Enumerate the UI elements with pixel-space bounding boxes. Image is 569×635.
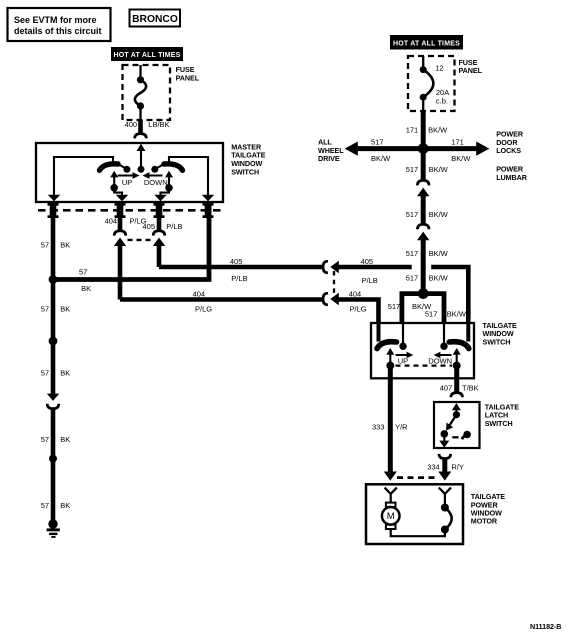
ground wire 57 BK left column upper (51, 218, 56, 280)
wire 407 T/BK from switch (454, 366, 459, 393)
svg-text:333: 333 (372, 423, 385, 432)
note box "See EVTM for more details of this circuit" (8, 8, 111, 41)
wire label 171 BK/W (upper) (406, 126, 448, 135)
svg-text:P/LG: P/LG (195, 305, 212, 314)
splice dot S5 (517 to switch) (418, 288, 429, 299)
svg-text:UP: UP (122, 178, 132, 187)
latch switch lower contact dot (441, 430, 449, 438)
svg-text:517: 517 (388, 302, 401, 311)
tailgate latch switch box (434, 402, 480, 448)
svg-text:M: M (387, 511, 395, 522)
ground wire 57 BK left column mid (51, 280, 56, 342)
wire 400 LB/BK from fuse panel (138, 120, 143, 133)
inline connector male arrow (404 horizontal) (330, 293, 339, 305)
inline connector male arrow (405 horizontal) (330, 261, 339, 273)
latch switch alternate contact (dot with tail) (462, 431, 471, 440)
svg-text:BK/W: BK/W (429, 249, 449, 258)
switch feed wire 517 left inside box (402, 323, 404, 343)
wire 333 male arrow at motor connector (384, 472, 397, 481)
tailgate switch left lower contact dot (386, 362, 394, 370)
svg-text:517: 517 (371, 138, 384, 147)
motor left terminal fork (385, 488, 397, 503)
inline connector male arrow (517 seg2) (417, 232, 429, 294)
svg-text:BK/W: BK/W (371, 154, 391, 163)
circuit breaker 20A c.b. (420, 56, 434, 111)
latch switch output arrow (down to box bottom) (439, 434, 449, 448)
fuse element (left fuse panel) (135, 65, 146, 120)
svg-text:SWITCH: SWITCH (483, 338, 511, 347)
inline connector female bell (405) (153, 231, 165, 236)
tailgate switch UP throw arrow (396, 352, 414, 359)
wire label 57 BK (5) (41, 501, 71, 510)
wire 404 P/LG horizontal right segment (336, 300, 379, 324)
ground branch wire 57 BK horizontal (53, 202, 209, 280)
svg-text:See EVTM for more: See EVTM for more (14, 15, 97, 25)
wire 171 BK/W arrow to power door locks (423, 142, 489, 156)
inline connector dashed link (horizontal pair) (333, 271, 335, 294)
svg-text:517: 517 (406, 165, 419, 174)
svg-text:BK/W: BK/W (429, 210, 449, 219)
master switch left contact arrow to arm (110, 171, 118, 188)
wire label 334 R/Y (427, 462, 464, 471)
motor right terminal fork (439, 488, 451, 504)
splice dot S4 (171/517 junction) (418, 143, 429, 154)
svg-text:334: 334 (427, 462, 440, 471)
svg-text:517: 517 (425, 310, 438, 319)
master switch right output wire (to 405) (161, 188, 170, 196)
wire 334 male arrow at motor connector (438, 472, 451, 481)
motor internal limit switch arc (445, 508, 452, 530)
svg-text:BK: BK (60, 240, 70, 249)
splice dot S2 (49, 337, 58, 346)
inline connector female bell (517 seg1) (417, 180, 429, 185)
wire label 57 BK (2) (41, 304, 71, 313)
tailgate switch left contact arrow to arm (386, 348, 394, 366)
wire 171 BK/W from breaker (421, 111, 426, 149)
wire label 517 BK/W (seg4) (406, 274, 449, 283)
svg-text:404: 404 (105, 217, 118, 226)
tailgate switch right lower contact dot (453, 362, 461, 370)
wire label 404 P/LG (upper) (105, 217, 147, 226)
svg-text:517: 517 (406, 249, 419, 258)
tailgate switch left contact dot (399, 343, 406, 350)
inline connector male arrow (405) (153, 238, 165, 268)
svg-text:BK: BK (60, 501, 70, 510)
master switch left wiper arm (100, 164, 119, 170)
master switch right lower contact dot (165, 184, 173, 192)
svg-text:R/Y: R/Y (451, 462, 464, 471)
svg-text:c.b.: c.b. (436, 96, 448, 105)
svg-text:BK: BK (60, 435, 70, 444)
wire label 517 BK/W (seg2) (406, 210, 449, 219)
master switch right feed rail (169, 157, 208, 195)
motor bottom wire (391, 529, 445, 536)
svg-text:407: 407 (440, 383, 453, 392)
master switch left lower contact dot (110, 184, 118, 192)
svg-text:BK: BK (60, 304, 70, 313)
svg-text:DRIVE: DRIVE (318, 154, 340, 163)
master switch bottom pin arrows (48, 195, 214, 202)
wire label 517 BK/W (seg3) (406, 249, 449, 258)
svg-text:BK/W: BK/W (428, 126, 448, 135)
motor M1 (armature) (382, 503, 400, 529)
power label HOT AT ALL TIMES (left) (111, 47, 183, 61)
master switch UP throw arrow (118, 172, 140, 179)
svg-text:MOTOR: MOTOR (471, 517, 498, 526)
wire 517 BK/W below junction (421, 149, 426, 180)
wire 517 right branch into switch (423, 294, 444, 323)
label TAILGATE POWER WINDOW MOTOR (471, 492, 506, 526)
label 20A c.b. (436, 88, 449, 105)
latch switch input arrow (up to box top) (452, 403, 461, 415)
ground wire 57 BK left column lower (51, 341, 56, 395)
label ALL WHEEL DRIVE (318, 138, 344, 163)
wire label 407 T/BK (440, 383, 479, 392)
svg-text:T/BK: T/BK (462, 383, 479, 392)
wire 517 left branch into switch (402, 294, 423, 323)
svg-text:404: 404 (349, 290, 362, 299)
switch feed wire 404 inside box (377, 323, 381, 342)
svg-text:HOT AT ALL TIMES: HOT AT ALL TIMES (393, 40, 460, 47)
svg-text:405: 405 (143, 222, 156, 231)
master switch right wiper arm (164, 164, 183, 170)
tailgate switch DOWN throw arrow (434, 352, 452, 359)
svg-text:57: 57 (41, 501, 49, 510)
switch feed wire 517 right inside box (443, 323, 445, 343)
fuse panel box (left, dashed) (123, 65, 171, 120)
inline connector dashed link (404-405 connector) (128, 239, 153, 241)
svg-text:405: 405 (361, 257, 374, 266)
svg-text:400: 400 (125, 120, 138, 129)
tailgate switch left wiper arm (377, 342, 397, 349)
svg-text:P/LB: P/LB (362, 276, 378, 285)
switch feed wire 405 inside box (466, 323, 470, 342)
svg-text:BK/W: BK/W (429, 165, 449, 174)
tailgate switch right contact dot (440, 343, 447, 350)
power label HOT AT ALL TIMES (right) (390, 35, 463, 50)
svg-text:BK/W: BK/W (447, 310, 467, 319)
svg-text:BK: BK (81, 284, 91, 293)
master switch left arm link to contact (119, 165, 126, 169)
svg-text:405: 405 (230, 257, 243, 266)
wire 405 upper stub (157, 218, 162, 230)
fuse panel box (right, dashed) (408, 56, 455, 111)
wire 333 Y/R from switch (388, 366, 393, 473)
svg-text:171: 171 (451, 138, 464, 147)
svg-text:P/LB: P/LB (166, 222, 182, 231)
svg-text:57: 57 (41, 369, 49, 378)
svg-text:HOT AT ALL TIMES: HOT AT ALL TIMES (114, 52, 181, 59)
svg-text:P/LB: P/LB (231, 274, 247, 283)
svg-text:SWITCH: SWITCH (485, 419, 513, 428)
wire label 57 BK (1) (41, 240, 71, 249)
tailgate window switch box (371, 323, 474, 378)
inline connector female bell (404) (114, 231, 126, 236)
wire label 57 BK (4) (41, 435, 71, 444)
svg-text:N11182-B: N11182-B (530, 622, 561, 631)
motor internal limit switch lower dot (441, 526, 449, 534)
splice dot S1 (49, 275, 58, 284)
svg-text:DOWN: DOWN (428, 356, 452, 365)
svg-text:PANEL: PANEL (176, 74, 200, 83)
wire label 517 BK/W (seg1) (406, 165, 449, 174)
svg-text:Y/R: Y/R (395, 423, 408, 432)
svg-text:57: 57 (41, 304, 49, 313)
connector pin (wire 404) (115, 203, 126, 218)
inline connector female bell (404 horizontal) (323, 293, 328, 305)
svg-text:BK/W: BK/W (429, 274, 449, 283)
feed arrow into master switch (up arrow to box top) (137, 144, 146, 170)
label MASTER TAILGATE WINDOW SWITCH (231, 142, 266, 176)
tailgate switch right wiper arm (449, 342, 469, 349)
svg-text:517: 517 (406, 210, 419, 219)
master switch left feed rail (54, 157, 113, 195)
svg-text:BK/W: BK/W (451, 154, 471, 163)
tailgate power window motor box (366, 484, 463, 544)
svg-text:171: 171 (406, 126, 419, 135)
svg-text:P/LG: P/LG (350, 305, 367, 314)
ground wire 57 BK bottom run (51, 409, 56, 522)
inline connector male arrow (404) (114, 238, 126, 300)
svg-text:LB/BK: LB/BK (148, 120, 169, 129)
svg-text:PANEL: PANEL (459, 66, 483, 75)
wire label 405 P/LB (upper) (143, 222, 183, 231)
wire 404 upper stub (118, 218, 123, 230)
master tailgate window switch box (36, 143, 223, 202)
label TAILGATE LATCH SWITCH (485, 402, 520, 428)
label POWER DOOR LOCKS (496, 130, 524, 155)
svg-text:details of this circuit: details of this circuit (14, 26, 102, 36)
connector pin (ground wire 57) (48, 203, 59, 218)
master switch DOWN throw arrow (143, 172, 163, 179)
inline connector female bell (405 horizontal) (323, 261, 328, 273)
motor connector dashed link (397, 476, 438, 479)
wire 334 R/Y (442, 458, 447, 472)
svg-text:LUMBAR: LUMBAR (496, 173, 528, 182)
inline connector male arrow (517 seg1) (417, 188, 429, 224)
svg-text:57: 57 (41, 240, 49, 249)
motor internal limit switch upper dot (441, 504, 449, 512)
svg-text:LOCKS: LOCKS (496, 146, 521, 155)
wire label 57 BK (3) (41, 369, 71, 378)
wire 405 P/LB horizontal right segment (336, 267, 469, 323)
inline connector female bell up (57) (47, 404, 59, 409)
svg-text:404: 404 (193, 290, 206, 299)
connector bell C (fuse panel output, female opening down) (135, 134, 147, 139)
wire 517 BK/W arrow to all wheel drive (345, 142, 424, 156)
svg-text:517: 517 (406, 274, 419, 283)
inline connector female bell (407) (451, 393, 463, 398)
master switch left output wire (to 404) (114, 188, 122, 196)
connector pin (wire 405) (154, 203, 165, 218)
svg-text:57: 57 (41, 435, 49, 444)
wire label 333 Y/R (372, 423, 408, 432)
label FUSE PANEL (right) (459, 58, 483, 75)
label FUSE PANEL (left) (176, 65, 200, 82)
inline connector male arrow down (57) (47, 394, 59, 401)
master switch right arm link to contact (156, 165, 163, 169)
connector C dashed line under master switch (38, 209, 222, 212)
connector pin (ground return wire 57) (203, 203, 214, 218)
label POWER LUMBAR (496, 165, 528, 182)
wire label 400 LB/BK (125, 120, 170, 129)
tailgate switch dashed contact link (396, 365, 453, 367)
splice dot S3 (49, 455, 57, 463)
title box BRONCO (130, 10, 181, 27)
master switch right contact arrow to arm (165, 171, 173, 188)
svg-text:BRONCO: BRONCO (132, 14, 178, 25)
svg-text:57: 57 (79, 267, 87, 276)
svg-text:12: 12 (435, 64, 443, 73)
wire 404 P/LG horizontal left segment (120, 297, 323, 302)
ground symbol G100 (47, 519, 60, 538)
svg-text:SWITCH: SWITCH (231, 167, 259, 176)
svg-text:UP: UP (398, 356, 408, 365)
inline connector female bell (517 seg2) (417, 224, 429, 229)
master switch contact dots row (123, 166, 158, 173)
svg-text:DOWN: DOWN (144, 178, 168, 187)
inline connector female bell up (334) (439, 454, 451, 459)
latch switch wiper with arrow (446, 415, 456, 431)
svg-text:BK: BK (60, 369, 70, 378)
latch switch upper contact dot (453, 411, 460, 418)
tailgate switch right contact arrow to arm (453, 348, 461, 366)
latch switch dashed contact link (452, 436, 458, 438)
wire 405 P/LB horizontal left segment (159, 265, 323, 270)
label TAILGATE WINDOW SWITCH (483, 321, 518, 347)
